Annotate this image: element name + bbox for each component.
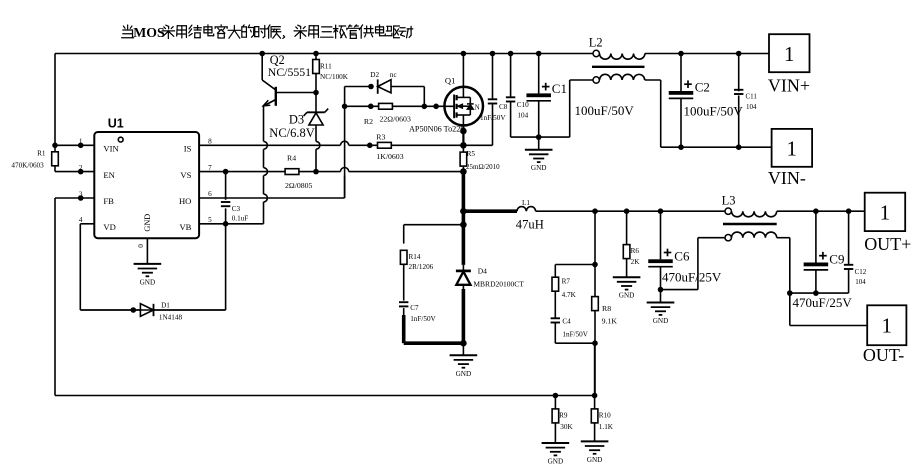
svg-text:VD: VD	[103, 222, 115, 232]
svg-text:GND: GND	[587, 456, 603, 464]
svg-text:C9: C9	[829, 252, 844, 267]
svg-text:C2: C2	[695, 79, 710, 94]
svg-text:104: 104	[855, 278, 866, 286]
svg-text:4: 4	[79, 216, 83, 224]
svg-text:D3: D3	[289, 113, 304, 127]
svg-text:D2: D2	[370, 71, 379, 79]
svg-text:GND: GND	[548, 458, 564, 466]
svg-text:R11: R11	[320, 63, 332, 71]
svg-text:1: 1	[882, 314, 893, 338]
svg-text:470uF/25V: 470uF/25V	[662, 270, 722, 285]
svg-text:GND: GND	[653, 317, 669, 325]
svg-text:VIN-: VIN-	[768, 168, 806, 188]
svg-text:nc: nc	[390, 71, 397, 79]
svg-text:R7: R7	[562, 277, 571, 285]
svg-text:1nF/50V: 1nF/50V	[410, 315, 436, 323]
svg-text:FB: FB	[103, 196, 114, 206]
svg-text:C11: C11	[746, 93, 758, 101]
svg-text:47uH: 47uH	[516, 217, 544, 231]
svg-text:R5: R5	[467, 150, 476, 158]
svg-text:C6: C6	[674, 248, 690, 263]
svg-text:9.1K: 9.1K	[602, 316, 618, 325]
svg-text:VIN: VIN	[103, 144, 119, 154]
svg-text:GND: GND	[619, 292, 635, 300]
svg-text:R6: R6	[631, 247, 640, 255]
svg-text:5: 5	[208, 216, 212, 224]
svg-text:NC/100K: NC/100K	[320, 73, 349, 81]
svg-text:Q1: Q1	[445, 75, 456, 85]
svg-text:100uF/50V: 100uF/50V	[684, 103, 744, 118]
svg-text:2: 2	[79, 164, 83, 172]
svg-text:8: 8	[208, 138, 212, 146]
svg-text:C10: C10	[517, 101, 529, 109]
svg-text:1: 1	[784, 42, 795, 66]
svg-text:L3: L3	[722, 193, 736, 207]
svg-text:HO: HO	[179, 196, 191, 206]
svg-text:L1: L1	[522, 199, 530, 207]
svg-text:R8: R8	[602, 304, 611, 313]
svg-text:L2: L2	[589, 36, 603, 50]
svg-text:U1: U1	[108, 117, 124, 131]
svg-text:GND: GND	[140, 278, 156, 286]
svg-text:C12: C12	[855, 268, 867, 276]
svg-text:NC/6.8V: NC/6.8V	[269, 126, 315, 140]
svg-text:VS: VS	[180, 170, 191, 180]
svg-text:C4: C4	[562, 317, 571, 325]
svg-text:1: 1	[787, 137, 798, 161]
svg-text:1nF/50V: 1nF/50V	[480, 114, 506, 122]
svg-text:R1: R1	[37, 149, 46, 157]
svg-text:GND: GND	[143, 214, 152, 232]
svg-text:GND: GND	[531, 164, 547, 172]
svg-text:100uF/50V: 100uF/50V	[575, 103, 635, 118]
svg-text:IS: IS	[184, 144, 192, 154]
svg-text:7: 7	[208, 164, 212, 172]
svg-text:VB: VB	[179, 222, 191, 232]
svg-text:2R/1206: 2R/1206	[409, 263, 434, 271]
svg-text:1N4148: 1N4148	[159, 314, 183, 322]
svg-text:R4: R4	[287, 154, 296, 163]
svg-text:N: N	[475, 104, 480, 111]
svg-text:EN: EN	[103, 170, 115, 180]
svg-text:MOS: MOS	[133, 25, 165, 40]
svg-text:R14: R14	[409, 253, 421, 261]
svg-text:0: 0	[137, 244, 145, 248]
svg-text:470K/0603: 470K/0603	[11, 162, 44, 170]
svg-text:1nF/50V: 1nF/50V	[562, 331, 588, 339]
svg-text:2K: 2K	[631, 258, 641, 266]
svg-text:3: 3	[79, 190, 83, 198]
svg-text:OUT-: OUT-	[863, 345, 904, 365]
svg-text:OUT+: OUT+	[864, 234, 911, 254]
svg-text:D4: D4	[478, 266, 487, 275]
svg-text:4.7K: 4.7K	[562, 291, 577, 299]
svg-text:VIN+: VIN+	[768, 76, 810, 96]
svg-text:1: 1	[79, 138, 83, 146]
svg-text:6: 6	[208, 190, 212, 198]
svg-text:R2: R2	[364, 117, 373, 126]
svg-text:C3: C3	[232, 205, 241, 213]
svg-text:104: 104	[746, 103, 757, 111]
svg-text:25mΩ/2010: 25mΩ/2010	[466, 163, 500, 171]
svg-text:0.1uF: 0.1uF	[232, 214, 249, 222]
svg-text:1.1K: 1.1K	[599, 423, 614, 431]
svg-text:MBRD20100CT: MBRD20100CT	[473, 280, 524, 289]
svg-text:22Ω/0603: 22Ω/0603	[380, 115, 411, 124]
svg-text:C1: C1	[552, 81, 567, 96]
svg-text:GND: GND	[456, 370, 472, 378]
svg-text:D1: D1	[161, 302, 170, 310]
svg-text:30K: 30K	[560, 423, 573, 431]
svg-text:470uF/25V: 470uF/25V	[793, 295, 853, 310]
svg-text:2Ω/0805: 2Ω/0805	[285, 181, 313, 190]
svg-text:104: 104	[517, 112, 528, 120]
svg-text:1: 1	[880, 201, 891, 225]
svg-text:R3: R3	[376, 132, 385, 141]
svg-text:C8: C8	[499, 103, 508, 111]
svg-text:C7: C7	[410, 304, 419, 312]
svg-text:AP50N06 To220: AP50N06 To220	[409, 124, 464, 133]
svg-text:NC/5551: NC/5551	[268, 65, 311, 79]
svg-text:1K/0603: 1K/0603	[376, 152, 403, 161]
svg-text:R9: R9	[559, 411, 568, 419]
svg-text:R10: R10	[599, 411, 611, 419]
